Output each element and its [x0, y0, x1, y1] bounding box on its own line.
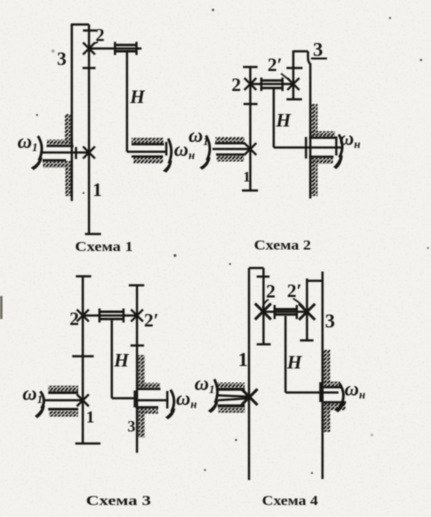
gear 2 bottom tbar: [257, 343, 271, 345]
gear 2' bottom tbar: [300, 339, 314, 341]
shaft 1-2 vertical line: [82, 276, 84, 443]
output arrow head: [335, 402, 345, 413]
ring gear 3 vertical line: [71, 25, 73, 202]
coupling top plate: [261, 79, 282, 82]
shaft 1 bottom tbar: [85, 233, 101, 235]
input arrow head: [208, 400, 219, 413]
coupling axis wire: [264, 311, 308, 313]
coupling top plate: [115, 44, 137, 47]
input bearing top hatch: [47, 140, 73, 146]
input shaft top line: [218, 395, 248, 396]
shaft 2'-3 vertical line: [292, 51, 294, 100]
coupling bottom plate: [115, 50, 137, 53]
output bearing bottom plate: [324, 401, 346, 403]
gear 2' tooth tick: [287, 67, 303, 69]
input bearing top plate: [47, 145, 74, 147]
input arrow head: [35, 406, 45, 419]
shaft 1-2 vertical line: [88, 25, 90, 234]
input shaft omega-1: [43, 399, 83, 401]
carrier H vertical wire: [284, 316, 286, 393]
input bearing bottom hatch: [217, 156, 245, 162]
coupling right bar: [135, 42, 137, 55]
input bearing bottom hatch: [43, 161, 66, 168]
output bearing top hatch: [132, 138, 164, 144]
input bearing bottom plate: [43, 159, 67, 161]
output shaft wire: [135, 399, 169, 401]
output bearing bottom hatch: [310, 158, 333, 164]
output bearing bottom hatch: [325, 403, 346, 410]
carrier H horizontal wire: [286, 391, 339, 393]
gear 2 mesh cross: [77, 310, 89, 322]
input bearing top plate: [48, 391, 78, 394]
frame wall hatch upper: [138, 355, 145, 389]
input rotation arc omega-1: [38, 136, 42, 161]
coupling left bar: [273, 305, 275, 319]
output bearing bottom hatch: [134, 158, 164, 164]
shaft 2' top tbar: [129, 284, 144, 286]
carrier H output shaft: [127, 151, 166, 153]
output rotation arc omega-H: [340, 383, 344, 405]
input arrow head: [31, 158, 43, 171]
input bearing top hatch: [218, 383, 245, 388]
gear 2 tooth tick: [83, 67, 96, 69]
label 3 dash: [311, 58, 327, 60]
input bearing top plate: [215, 142, 245, 144]
input cross on gear 1: [242, 389, 258, 405]
output bearing top plate: [132, 143, 165, 145]
ring gear 3 vertical line: [321, 272, 323, 480]
shaft 1 vertical line: [248, 268, 250, 480]
input shaft omega-1: [40, 151, 89, 153]
rotation arrow omega-H arc: [168, 139, 171, 164]
shaft 1-2 vertical line: [249, 67, 251, 191]
gear 2' mesh cross: [131, 310, 143, 322]
label 2' leader: [281, 74, 291, 82]
top bracket wire: [249, 267, 264, 269]
input bearing top hatch: [216, 137, 245, 143]
gear 2 branch vertical line: [262, 268, 264, 344]
shaft top tbar: [243, 66, 258, 68]
output rotation arc omega-H: [339, 135, 342, 158]
input bearing bottom plate: [216, 153, 245, 155]
coupling left bar: [98, 309, 100, 323]
coupling left bar: [260, 78, 262, 92]
gear 2 tooth tick: [257, 275, 270, 277]
coupling axis wire: [115, 47, 142, 49]
output inner cap bar: [305, 137, 307, 159]
gear 3 tooth tick: [83, 29, 97, 31]
bracket 2'-3 wire: [293, 50, 308, 52]
coupling bottom plate: [261, 87, 282, 90]
frame wall hatch upper right: [311, 104, 318, 136]
rotation arrow head: [163, 161, 172, 173]
output bearing bottom hatch: [139, 408, 158, 414]
input cross on gear 1: [244, 143, 256, 155]
input bearing top plate: [218, 388, 245, 391]
output bearing top plate: [309, 137, 336, 139]
shaft 1 bottom tbar: [242, 189, 258, 191]
coupling top plate: [275, 308, 297, 311]
input rotation arc: [206, 136, 210, 161]
gear 2 mesh cross: [83, 43, 95, 55]
input arrow head: [200, 158, 211, 170]
coupling top plate: [100, 311, 124, 314]
label 2 leader: [263, 300, 269, 309]
input cross on gear 1: [77, 394, 89, 406]
frame wall hatch upper: [65, 114, 71, 143]
output bearing top plate: [138, 388, 161, 390]
coupling bottom plate: [275, 313, 297, 316]
input bearing bottom plate: [218, 404, 245, 407]
carrier H vertical wire: [273, 88, 275, 148]
shaft 1 bottom tbar: [75, 442, 100, 444]
carrier H horizontal wire: [112, 397, 135, 399]
wire gear2 to coupling: [89, 47, 115, 49]
coupling right bar: [296, 305, 298, 319]
label 2 leader: [92, 42, 99, 47]
shaft 2'-3 vertical line: [136, 285, 138, 453]
input bearing bottom hatch: [49, 411, 78, 416]
output end cap bar: [166, 391, 168, 409]
ring gear 3 vertical line: [308, 51, 310, 198]
gear 2' branch vertical line: [306, 279, 308, 341]
gear 2' bottom tbar: [287, 98, 303, 100]
output shaft end cap: [165, 142, 167, 156]
input bearing cap bar: [75, 147, 77, 159]
input bearing bottom hatch: [218, 408, 244, 413]
output bearing top hatch: [324, 382, 340, 387]
input cross on sun gear 1: [83, 147, 95, 159]
output bearing top plate: [324, 386, 341, 388]
gear 2 tooth tick: [72, 355, 94, 357]
gear 2' mesh cross: [299, 304, 315, 320]
output rotation arc omega-H: [171, 390, 175, 412]
wire gear2 to gear2': [83, 314, 137, 316]
input shaft bottom line: [218, 398, 248, 400]
coupling left bar: [114, 42, 116, 55]
input rotation arc: [40, 391, 44, 408]
wire gear2 to coupling: [250, 83, 293, 85]
output bearing top hatch: [139, 383, 161, 389]
output arrow head: [165, 409, 175, 420]
bracket 2'-3 wire: [307, 280, 323, 282]
coupling right bar: [122, 309, 124, 323]
frame wall hatch lower: [324, 402, 331, 432]
coupling right bar: [281, 78, 283, 92]
frame wall hatch lower: [65, 161, 71, 196]
frame wall hatch lower: [138, 408, 145, 438]
input rotation arc: [214, 379, 217, 403]
gear 2' tooth tick: [131, 344, 145, 346]
frame wall hatch upper: [324, 350, 331, 384]
carrier H vertical wire: [126, 51, 128, 151]
output bearing bottom plate: [309, 156, 334, 158]
coupling bottom plate: [100, 318, 124, 321]
gear 2 mesh cross: [255, 304, 271, 320]
carrier H vertical wire: [111, 319, 113, 398]
shaft top tbar: [76, 275, 91, 277]
output bearing top hatch: [310, 131, 335, 137]
gear 2 mesh cross: [244, 78, 256, 90]
input shaft omega-1: [213, 148, 251, 150]
output bearing bottom plate: [132, 155, 164, 157]
output end cap bar: [335, 137, 337, 156]
output bearing bottom plate: [138, 406, 158, 408]
label 2' leader: [293, 299, 304, 308]
output inner cap bar: [134, 391, 136, 408]
input bearing top hatch: [48, 386, 78, 392]
frame wall hatch lower right: [311, 158, 318, 196]
gear 2 tooth tick: [244, 103, 258, 105]
carrier H horizontal wire: [274, 146, 342, 148]
input bearing bottom plate: [48, 408, 78, 411]
output arrow head: [333, 156, 343, 170]
top bracket wire: [71, 23, 89, 25]
gear 2' mesh cross: [287, 78, 299, 90]
output cap bar: [319, 382, 321, 402]
